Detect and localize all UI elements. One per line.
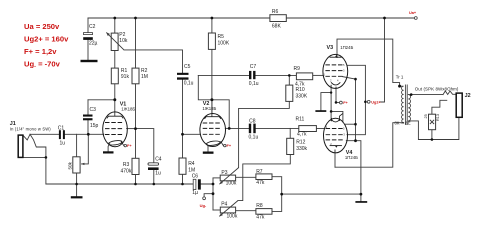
transformer Tr1 <box>400 85 411 126</box>
wire R11 to V4 g1 <box>316 128 324 130</box>
potentiometer P2 wiper arrow <box>106 32 124 50</box>
wire C8 row <box>229 127 299 129</box>
svg-text:C3: C3 <box>90 107 97 113</box>
wire R7 right <box>272 177 282 194</box>
junction Tr1 secondary top <box>410 93 413 96</box>
wire Ug- node column <box>212 178 214 210</box>
zobel X mark <box>430 120 434 124</box>
svg-text:R3: R3 <box>123 162 130 168</box>
wire R10 bottom to P3 wiper <box>239 101 290 167</box>
wire R10 stem <box>288 75 290 85</box>
svg-text:Ug2+: Ug2+ <box>371 100 381 104</box>
wire R8 right <box>272 194 282 211</box>
svg-text:1П24Б: 1П24Б <box>345 155 358 160</box>
wire V3 fil left <box>330 88 332 93</box>
wire V1 anode stem <box>114 100 116 116</box>
junction V1 grid node <box>87 133 90 136</box>
svg-text:1Ж18Б: 1Ж18Б <box>121 107 135 112</box>
wire transformer return / V4 anode row <box>335 123 404 168</box>
svg-text:R6: R6 <box>272 9 279 15</box>
resistor R3 <box>132 158 139 174</box>
junction rail-P2 <box>113 17 116 20</box>
svg-text:C8: C8 <box>249 119 256 125</box>
wire V1 fil left gnd <box>108 144 110 152</box>
primary winding <box>400 86 404 123</box>
wire V4 g3 lower lead <box>346 141 361 194</box>
junction bus-C4 <box>153 183 156 186</box>
resistor R1 <box>111 68 118 84</box>
wire anode node right branch <box>212 100 229 129</box>
potentiometer P3 wiper diagonal <box>219 168 238 185</box>
wire P1 top stem <box>76 134 78 157</box>
svg-text:1µ: 1µ <box>192 190 198 196</box>
wire V2 g2 lead <box>225 127 229 129</box>
wire P3 to R7 <box>236 176 256 178</box>
wire C7 row <box>198 74 296 76</box>
svg-text:100K: 100K <box>218 40 230 46</box>
wire Ua+ rail drop to Ug2+ <box>380 18 385 102</box>
ground output stage <box>355 201 367 203</box>
resistor R11 <box>299 126 317 132</box>
svg-text:4,7k: 4,7k <box>297 131 307 137</box>
svg-text:22µ: 22µ <box>89 40 98 46</box>
wire V1 g2 lead <box>127 128 136 130</box>
wire g2 node to C4 <box>136 129 154 163</box>
wire C4 bottom <box>153 170 155 184</box>
wire C2 branch <box>87 18 89 60</box>
junction fil column <box>330 110 333 113</box>
wire C7 branch L <box>198 75 212 99</box>
wire R12 top stem <box>289 128 291 138</box>
wire J2 tip spring <box>443 91 456 95</box>
capacitor C2 (electrolytic) <box>83 33 93 40</box>
red voltage annotations <box>24 22 69 70</box>
svg-text:C7: C7 <box>250 64 257 70</box>
potentiometer P4 box <box>220 207 235 213</box>
capacitor C6 (electrolytic) <box>193 179 201 189</box>
svg-text:J2: J2 <box>465 93 471 99</box>
resistor R5 <box>208 33 215 49</box>
svg-text:P4: P4 <box>221 201 227 207</box>
junction V1 anode node <box>113 98 116 101</box>
svg-text:1M: 1M <box>188 167 195 173</box>
terminal F+ output <box>340 101 343 104</box>
resistor R4 <box>179 158 186 174</box>
wire fil column between tubes <box>330 93 332 121</box>
pin numbers V3 V4 <box>324 63 346 146</box>
junction Tr1 primary top <box>398 85 401 88</box>
junction R9-R10 <box>288 74 291 77</box>
capacitor C7 <box>249 71 256 79</box>
wire V2 anode stem <box>211 100 213 117</box>
junction bus-R4 <box>181 183 184 186</box>
wire J1 switch arm <box>30 134 46 157</box>
zobel network R13 box <box>429 114 436 130</box>
wire V1 anode row <box>88 99 115 101</box>
svg-text:R13: R13 <box>436 114 440 121</box>
terminal Ua+ <box>414 17 417 20</box>
ground filament minus <box>315 110 326 112</box>
svg-text:0,1u: 0,1u <box>249 81 259 87</box>
svg-text:1M: 1M <box>141 74 148 80</box>
capacitor C4 (electrolytic) <box>148 163 159 170</box>
junction Ug- node upper <box>212 183 215 186</box>
svg-text:330k: 330k <box>296 146 307 152</box>
potentiometer P3 box <box>220 175 235 181</box>
capacitor C5 <box>177 73 189 80</box>
svg-text:Out (SPK 8Wx8Ohm): Out (SPK 8Wx8Ohm) <box>415 87 459 92</box>
tube V4 (inverted) <box>324 113 348 152</box>
junction V2 grid node <box>181 133 184 136</box>
potentiometer P2 box <box>111 33 118 50</box>
junction V2 anode node <box>210 98 213 101</box>
wire P3 left lead <box>213 177 220 179</box>
resistor R7 <box>256 174 272 180</box>
svg-text:10k: 10k <box>119 38 128 44</box>
svg-text:C5: C5 <box>184 64 191 70</box>
svg-text:Ua = 250v: Ua = 250v <box>24 22 60 31</box>
svg-text:Ug2+ = 160v: Ug2+ = 160v <box>24 35 69 44</box>
ground C2 <box>81 60 98 62</box>
wire C3 column <box>87 100 89 135</box>
junction bus-P1 <box>75 183 78 186</box>
secondary winding <box>408 95 410 121</box>
wire R9 to V3 g1 <box>313 74 324 76</box>
tube V3 <box>323 54 348 88</box>
wire fil minus gnd branch <box>321 93 331 111</box>
svg-text:47k: 47k <box>256 215 265 221</box>
junction V3 g3 <box>354 78 357 81</box>
svg-text:R12: R12 <box>296 139 305 145</box>
wire R12 bottom to P4 wiper <box>238 154 290 200</box>
wire V1 fil right to F+ <box>121 142 124 146</box>
wire V3 anode to transformer <box>337 39 400 86</box>
terminal Ug- <box>203 197 206 200</box>
svg-text:Ug- = -70v: Ug- = -70v <box>24 60 61 70</box>
svg-text:V3: V3 <box>327 45 334 51</box>
wire P2 wiper to C5 <box>124 50 183 73</box>
svg-text:470k: 470k <box>121 168 132 174</box>
wire top rail right <box>286 17 414 19</box>
svg-text:68K: 68K <box>272 24 282 30</box>
svg-text:Ug-: Ug- <box>200 203 207 208</box>
wire V3 g2 to Ug2+ line <box>347 65 365 134</box>
wire main right gnd stem <box>360 194 362 201</box>
svg-text:R4: R4 <box>188 161 195 167</box>
terminal Ug2+ <box>367 100 370 103</box>
wire J1 down to bus <box>45 157 47 184</box>
svg-text:15p: 15p <box>90 123 99 129</box>
junction output gnd node <box>360 193 363 196</box>
wire secondary top out <box>408 94 443 96</box>
wire J1 sleeve <box>23 156 46 158</box>
svg-text:25: 25 <box>424 114 428 118</box>
wire fil jog to V4 right <box>331 111 343 122</box>
svg-text:R7: R7 <box>256 169 263 175</box>
svg-text:1Ж18Б: 1Ж18Б <box>202 106 216 111</box>
wire zobel top <box>432 100 447 114</box>
svg-text:C2: C2 <box>89 24 96 30</box>
svg-text:0,1u: 0,1u <box>184 81 194 87</box>
capacitor C3 <box>83 115 93 121</box>
potentiometer P4 wiper diagonal <box>219 201 238 217</box>
junction rail-R5 <box>211 17 214 20</box>
capacitor C1 <box>59 130 65 139</box>
junction J1 sleeve-switch <box>45 156 48 159</box>
capacitor C8 <box>249 124 256 134</box>
wire Ug- stub <box>204 194 213 197</box>
wire R2 column <box>135 18 137 129</box>
svg-text:47k: 47k <box>256 180 265 186</box>
resistor R9 <box>296 73 312 80</box>
wire g3 gnd line <box>355 79 357 141</box>
wire top rail left <box>88 17 270 19</box>
transformer core <box>405 85 407 126</box>
wire P4 left lead <box>213 209 220 211</box>
svg-text:F+ = 1,2v: F+ = 1,2v <box>24 47 57 56</box>
junction rail-Ug2 drop <box>383 17 386 20</box>
svg-text:0,1u: 0,1u <box>249 135 259 141</box>
svg-text:1u: 1u <box>60 141 66 147</box>
wire zobel bottom <box>431 130 433 140</box>
svg-text:R10: R10 <box>296 87 305 93</box>
ground V1 filament <box>103 151 114 153</box>
wire V2 fil left gnd <box>207 144 208 152</box>
junction Ug2+ stub <box>364 101 367 104</box>
svg-text:F+: F+ <box>227 144 232 148</box>
junction V1 g2 node <box>134 127 137 130</box>
wire V2 fil right to F+ <box>221 142 224 146</box>
resistor R12 <box>287 138 294 154</box>
terminal F+ V1 <box>124 144 126 146</box>
svg-text:C6: C6 <box>192 173 199 179</box>
svg-text:330K: 330K <box>296 93 308 99</box>
junction F+ stub <box>335 101 338 104</box>
svg-text:C4: C4 <box>155 156 162 162</box>
potentiometer P1 wiper arrowhead <box>81 163 84 165</box>
svg-text:R8: R8 <box>256 203 263 209</box>
wire R3 column <box>135 129 137 184</box>
svg-text:100k: 100k <box>227 213 238 219</box>
svg-text:R5: R5 <box>218 34 225 40</box>
svg-text:R9: R9 <box>294 66 301 72</box>
wire secondary bottom <box>408 117 459 139</box>
junction V4 g3 lower <box>354 139 357 142</box>
wire R4 column <box>182 134 184 184</box>
potentiometer P1 box <box>73 157 80 173</box>
junction zobel bottom <box>431 138 434 141</box>
wire V4 g3 upper lead <box>345 123 355 125</box>
wire feedback common to gnd <box>282 193 361 195</box>
resistor R10 <box>286 85 293 101</box>
junction V2 g2-C8 node <box>228 127 231 130</box>
junction V4 g3 upper <box>354 123 357 126</box>
svg-text:50k: 50k <box>68 161 73 169</box>
tube V1 <box>103 112 128 147</box>
svg-text:R11: R11 <box>296 117 305 123</box>
svg-text:91k: 91k <box>121 74 130 80</box>
wire P4 to R8 <box>236 210 256 212</box>
terminal F+ V2 <box>224 144 226 146</box>
wire ground bus <box>46 183 213 185</box>
wire V4 anode stem <box>334 153 336 167</box>
svg-text:P3: P3 <box>221 170 227 176</box>
svg-text:F+: F+ <box>343 101 348 105</box>
resistor R2 <box>132 68 139 84</box>
resistor R8 <box>256 209 272 215</box>
junction rail-R2 <box>134 17 137 20</box>
svg-text:1П24Б: 1П24Б <box>340 45 353 50</box>
resistor R6 <box>270 15 286 22</box>
wire P1 wiper <box>82 134 89 164</box>
wire V1 grid row <box>30 133 104 135</box>
wire C5 to V2 grid <box>183 80 201 135</box>
tube V2 <box>200 114 226 147</box>
svg-text:100k: 100k <box>226 181 237 187</box>
ground P1 <box>71 196 83 198</box>
svg-text:8K -> 8E: 8K -> 8E <box>395 120 411 125</box>
svg-text:C1: C1 <box>58 126 65 132</box>
svg-text:1u: 1u <box>155 171 161 177</box>
svg-text:Ua+: Ua+ <box>409 11 417 15</box>
junction R7-R8 common <box>280 193 283 196</box>
wire V3 g3 lead <box>343 77 356 80</box>
jack J2 <box>456 93 462 117</box>
junction bus-R3 <box>134 183 137 186</box>
wire P2 R1 column <box>114 18 116 100</box>
red terminal labels <box>127 11 417 208</box>
ground V2 filament <box>203 152 214 154</box>
svg-text:F+: F+ <box>127 144 132 148</box>
wire V3 fil right to F+ <box>336 88 339 102</box>
jack J1 <box>18 135 23 157</box>
svg-text:In (1/4" mono w SW): In (1/4" mono w SW) <box>10 127 52 132</box>
wire R5 column <box>211 18 213 114</box>
wire J1 tip arm <box>23 134 30 140</box>
junction V3 fil minus <box>330 91 332 93</box>
junction Ug- node lower <box>212 192 215 195</box>
svg-text:Tr 1: Tr 1 <box>396 75 404 80</box>
wire P1 bottom gnd stem <box>76 173 78 196</box>
